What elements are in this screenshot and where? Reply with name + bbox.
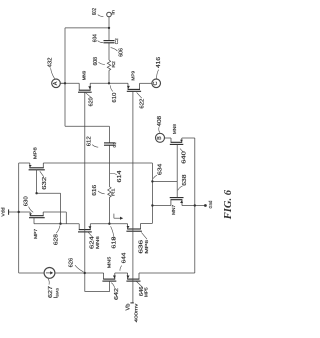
svg-text:Vdd: Vdd <box>1 207 6 216</box>
svg-text:622: 622 <box>139 99 145 109</box>
svg-text:B: B <box>157 136 163 140</box>
svg-text:MP5: MP5 <box>143 287 148 297</box>
svg-text:630: 630 <box>23 196 29 206</box>
svg-text:In: In <box>110 10 115 15</box>
svg-text:432: 432 <box>47 58 53 68</box>
svg-text:626: 626 <box>69 258 75 268</box>
svg-text:MP8: MP8 <box>33 147 38 160</box>
svg-text:620: 620 <box>89 97 95 106</box>
svg-text:IBIAS: IBIAS <box>53 287 59 298</box>
svg-text:MN6: MN6 <box>95 236 100 249</box>
svg-text:MN8: MN8 <box>172 124 177 134</box>
svg-text:416: 416 <box>156 57 162 68</box>
svg-text:642: 642 <box>114 288 120 300</box>
svg-text:644: 644 <box>122 253 128 264</box>
svg-text:Gnd: Gnd <box>208 200 213 208</box>
svg-text:408: 408 <box>157 116 163 127</box>
svg-text:610: 610 <box>112 93 118 103</box>
svg-text:604: 604 <box>93 34 99 42</box>
svg-text:632: 632 <box>42 177 48 190</box>
svg-text:C2: C2 <box>114 38 120 44</box>
svg-text:618: 618 <box>112 237 118 249</box>
svg-text:628: 628 <box>54 234 60 245</box>
svg-text:C: C <box>153 81 159 85</box>
svg-text:MP6: MP6 <box>144 239 149 253</box>
svg-text:608: 608 <box>93 57 99 66</box>
svg-text:R1: R1 <box>110 188 116 196</box>
svg-text:640: 640 <box>181 151 187 164</box>
svg-text:MN5: MN5 <box>106 256 111 268</box>
svg-text:MN9: MN9 <box>82 70 87 80</box>
svg-text:638: 638 <box>182 175 188 186</box>
svg-text:MP9: MP9 <box>130 71 135 81</box>
svg-text:634: 634 <box>158 164 164 175</box>
svg-text:A: A <box>53 81 59 85</box>
svg-text:MP7: MP7 <box>33 228 38 238</box>
svg-text:MN7: MN7 <box>171 204 176 214</box>
svg-text:Vb: Vb <box>126 303 132 310</box>
svg-text:612: 612 <box>86 136 92 146</box>
svg-text:R2: R2 <box>111 61 117 68</box>
svg-text:400mv: 400mv <box>134 303 140 323</box>
svg-text:614: 614 <box>117 171 123 183</box>
svg-text:627: 627 <box>48 286 54 298</box>
svg-text:616: 616 <box>92 185 98 196</box>
svg-text:FIG. 6: FIG. 6 <box>223 189 234 220</box>
svg-text:602: 602 <box>92 8 98 15</box>
svg-text:C1: C1 <box>112 142 118 148</box>
svg-text:606: 606 <box>118 48 124 57</box>
